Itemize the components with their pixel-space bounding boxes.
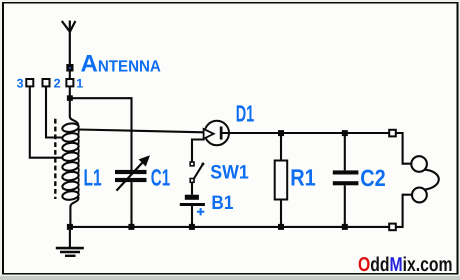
coil loop connectors bbox=[77, 129, 79, 193]
svg-text:SW1: SW1 bbox=[210, 162, 249, 184]
wire C2 bottom bbox=[344, 185, 346, 224]
L1 core dashed line bbox=[54, 119, 56, 199]
terminal 1 bbox=[66, 79, 73, 86]
svg-text:D1: D1 bbox=[236, 101, 255, 127]
wire C1 bottom bbox=[130, 182, 132, 224]
bottom grey strip bbox=[0, 276, 460, 280]
switch SW1 contact top bbox=[190, 162, 194, 166]
wire to ground bbox=[69, 230, 71, 248]
battery B1 negative plate bbox=[185, 195, 199, 200]
diode D1 cathode bar bbox=[220, 127, 223, 140]
svg-text:1: 1 bbox=[76, 77, 83, 91]
capacitor C1 plates bbox=[115, 170, 147, 174]
wire R1 top bbox=[280, 136, 282, 161]
antenna bbox=[69, 21, 71, 65]
wire terminal1 to junction bbox=[69, 86, 71, 95]
phones terminal top bbox=[389, 130, 396, 137]
inductor L1 loops bbox=[62, 122, 79, 133]
phones terminal bottom bbox=[389, 224, 396, 231]
wire terminal 2 tap bbox=[46, 86, 63, 137]
wire junction down to coil bbox=[70, 101, 78, 126]
svg-text:OddMix.com: OddMix.com bbox=[358, 254, 453, 276]
junction node A bbox=[67, 95, 73, 101]
wire R1 bottom bbox=[280, 200, 282, 225]
svg-text:B1: B1 bbox=[211, 192, 233, 214]
svg-text:L1: L1 bbox=[84, 164, 102, 190]
earpiece top bbox=[411, 156, 427, 172]
junction B1 bottom bbox=[189, 224, 195, 230]
C1 variable arrow bbox=[117, 162, 143, 190]
top bus wire bbox=[223, 132, 390, 134]
battery plus sign bbox=[197, 211, 204, 213]
junction C2 top bbox=[342, 130, 348, 136]
wire antenna to terminal 1 bbox=[69, 72, 71, 80]
svg-text:C2: C2 bbox=[360, 165, 386, 191]
svg-text:R1: R1 bbox=[290, 164, 316, 190]
bottom bus wire bbox=[70, 226, 389, 228]
junction R1 top bbox=[278, 130, 284, 136]
wire switch to battery bbox=[191, 182, 193, 194]
wire junction to C1 top bbox=[70, 98, 132, 170]
terminal 2 bbox=[43, 79, 50, 86]
junction C1 bottom bbox=[128, 224, 134, 230]
ground bbox=[56, 247, 84, 250]
svg-text:C1: C1 bbox=[151, 164, 170, 190]
resistor R1 body bbox=[275, 161, 288, 200]
junction R1 bottom bbox=[278, 224, 284, 230]
capacitor C2 plates bbox=[333, 170, 359, 174]
headband bbox=[424, 170, 438, 190]
wire phones bottom bbox=[396, 195, 412, 227]
wire C2 top bbox=[344, 136, 346, 170]
diode D1 circle bbox=[205, 121, 229, 145]
junction C2 bottom bbox=[342, 224, 348, 230]
junction ground bbox=[67, 224, 73, 230]
earpiece bottom bbox=[412, 188, 427, 203]
wire coil tap to diode D1 bbox=[78, 130, 203, 133]
battery B1 positive plate bbox=[180, 203, 205, 206]
svg-text:2: 2 bbox=[54, 77, 61, 91]
diode D1 triangle bbox=[204, 129, 214, 139]
wire battery to bottom bus bbox=[191, 206, 193, 224]
coil exit wire bbox=[70, 197, 78, 224]
antenna junction square bbox=[66, 64, 73, 72]
svg-text:3: 3 bbox=[17, 77, 24, 91]
wire diode anode branch to switch bbox=[192, 140, 205, 163]
switch SW1 contact bottom bbox=[190, 179, 194, 183]
wire phones top bbox=[396, 133, 411, 164]
terminal 3 bbox=[26, 79, 33, 86]
wire terminal 3 tap bbox=[30, 86, 63, 157]
switch SW1 lever bbox=[194, 164, 203, 179]
